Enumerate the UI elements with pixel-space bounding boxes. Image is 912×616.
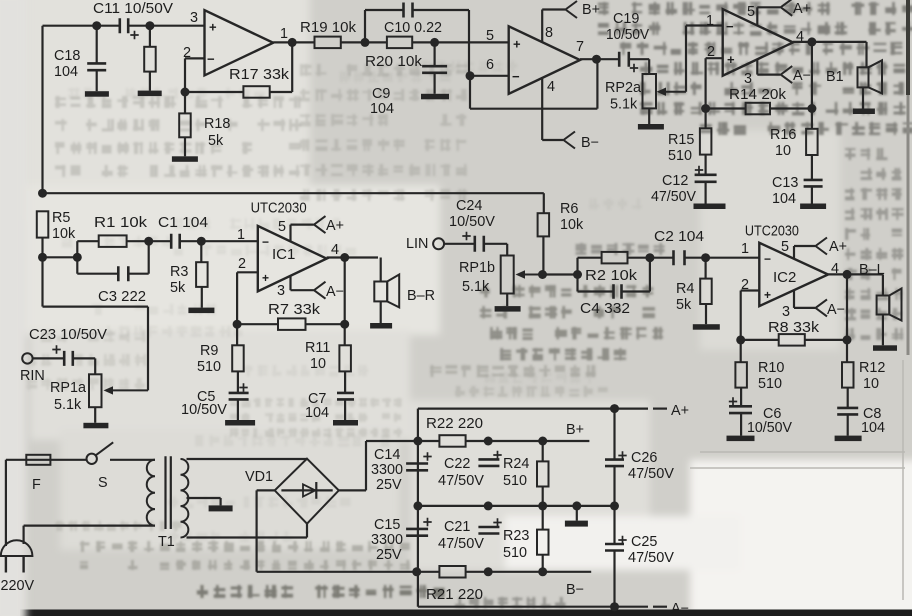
svg-text:1: 1 — [706, 13, 714, 29]
svg-text:104: 104 — [772, 191, 796, 207]
svg-text:C22: C22 — [444, 456, 470, 472]
ground under R3 — [188, 308, 214, 314]
svg-text:C12: C12 — [662, 173, 688, 189]
svg-text:1: 1 — [280, 26, 288, 42]
op-amp U3 triangle — [205, 10, 274, 75]
svg-text:4: 4 — [547, 79, 555, 95]
capacitor C6 10/50V electrolytic — [729, 406, 752, 413]
svg-text:10/50V: 10/50V — [747, 420, 792, 436]
light page margin on left — [0, 0, 26, 616]
wire: speaker B1 to ground — [862, 87, 864, 108]
wire and connector: IC2 pin 3 to A- — [793, 290, 795, 308]
ground under speaker B-R — [370, 323, 392, 329]
wire: speaker B-L to ground — [882, 315, 884, 346]
svg-text:R12: R12 — [859, 360, 885, 376]
svg-text:47/50V: 47/50V — [438, 473, 484, 489]
svg-text:R16: R16 — [770, 127, 796, 143]
svg-text:104: 104 — [305, 405, 329, 421]
node junction pin2/R9/R7 — [233, 320, 242, 329]
resistor R6 10k — [538, 213, 550, 236]
resistor R11 10 — [344, 324, 346, 345]
op-amp U4 triangle (buffer) — [509, 26, 580, 94]
svg-text:C14: C14 — [374, 447, 400, 463]
svg-text:5.1k: 5.1k — [54, 397, 82, 413]
terminal dash and label A+ — [653, 408, 667, 410]
svg-text:C9: C9 — [372, 86, 390, 102]
wire: U4 output to C19 — [580, 58, 619, 60]
wire: R19 to junction — [341, 41, 387, 43]
resistor (unlabeled) shunt to ground — [149, 26, 151, 47]
node junction C1/R3 — [197, 237, 206, 246]
node junction C26 on A+ rail — [610, 404, 619, 413]
node junction R2/C2 — [645, 253, 654, 262]
mains plug 220V — [1, 540, 33, 556]
speaker B-R — [374, 282, 387, 302]
node junction C25 on A- rail — [610, 602, 619, 611]
wire down to speaker B-L — [882, 274, 884, 295]
node junction R7/R11 — [340, 320, 349, 329]
node junction pin2/R17/R18 — [181, 88, 190, 97]
wire: IC1 pin 5 stub and connector to A+ — [289, 225, 291, 242]
node junction bus/left vertical — [38, 189, 47, 198]
svg-text:−: − — [764, 252, 771, 266]
resistor R9 510 — [236, 324, 238, 345]
wire: bus corner down to R6 — [543, 193, 545, 213]
node junctions on B+ rail — [413, 437, 422, 446]
svg-text:UTC2030: UTC2030 — [745, 223, 799, 240]
potentiometer RP1b 5.1k — [501, 256, 514, 294]
power amp U2 triangle — [723, 9, 793, 76]
svg-text:R2 10k: R2 10k — [585, 268, 638, 284]
svg-text:7: 7 — [576, 39, 584, 55]
svg-text:IC1: IC1 — [272, 246, 295, 263]
node junction IC2 output — [843, 270, 852, 279]
wire and connector: pin 8 to B+ — [541, 10, 543, 44]
wire: U2 pin 2 input — [706, 57, 723, 59]
svg-text:A+: A+ — [793, 1, 811, 17]
svg-text:A−: A− — [326, 284, 344, 300]
capacitor C18 104 (shunt to ground) — [96, 26, 98, 64]
svg-text:LIN: LIN — [406, 236, 428, 252]
svg-text:+: + — [209, 20, 217, 35]
ground under C5 — [225, 420, 255, 426]
svg-text:3300: 3300 — [371, 532, 403, 548]
ground at center tap — [209, 505, 233, 511]
node junction R8/R12 — [843, 335, 852, 344]
rail A- bottom — [418, 606, 648, 608]
svg-text:6: 6 — [486, 57, 494, 73]
terminal dash and label A- — [653, 606, 667, 608]
capacitor C11 10/50V (series electrolytic) — [120, 18, 128, 33]
svg-text:R22 220: R22 220 — [426, 416, 483, 432]
resistor R18 5k to ground — [184, 92, 186, 113]
feedback wire IC2 output down to R8 — [846, 274, 848, 340]
svg-text:+: + — [262, 271, 269, 285]
svg-text:R7 33k: R7 33k — [268, 302, 321, 318]
svg-text:10/50V: 10/50V — [606, 27, 649, 43]
node junction at C9 — [430, 38, 439, 47]
ground under C6 — [727, 436, 755, 442]
wire C24 to RP1b — [484, 243, 507, 245]
svg-text:C19: C19 — [613, 11, 639, 27]
wire: C11 to op-amp pin 3 — [129, 25, 205, 27]
right page border line — [906, 0, 910, 95]
rail B- with resistor R21 220 — [417, 571, 440, 573]
rail A+ top — [418, 408, 648, 410]
resistor R12 10 — [846, 340, 848, 362]
svg-text:R19 10k: R19 10k — [300, 20, 357, 36]
svg-text:+: + — [513, 37, 521, 52]
svg-text:RP1a: RP1a — [50, 380, 86, 396]
svg-text:C2 104: C2 104 — [654, 229, 704, 245]
ground stub on 0V rail — [576, 506, 578, 521]
svg-text:5.1k: 5.1k — [610, 97, 638, 113]
svg-text:R20 10k: R20 10k — [365, 54, 423, 70]
capacitor C26 47/50V electrolytic — [613, 409, 615, 460]
svg-text:−: − — [512, 69, 520, 84]
wire: secondary top to bridge AC — [187, 458, 308, 460]
wire: RP1a bottom to ground — [94, 407, 96, 423]
bottom scan band — [20, 610, 912, 616]
svg-text:VD1: VD1 — [245, 469, 273, 485]
resistor R1 10k — [76, 241, 78, 257]
svg-text:R21 220: R21 220 — [426, 587, 483, 603]
svg-text:B+: B+ — [566, 422, 584, 438]
capacitor C2 104 series — [650, 257, 674, 259]
svg-text:R11: R11 — [305, 340, 330, 356]
resistor R2 10k — [576, 258, 578, 275]
svg-text:RP1b: RP1b — [459, 260, 495, 276]
feedback wire IC1 output to R7 — [344, 258, 346, 325]
potentiometer RP1a 5.1k — [89, 374, 102, 407]
wire: long mixing bus from left section to R6 — [43, 192, 544, 194]
svg-text:R8 33k: R8 33k — [768, 320, 820, 336]
wire down to speaker B-R — [380, 258, 382, 282]
svg-text:C15: C15 — [374, 517, 400, 533]
svg-text:A+: A+ — [829, 239, 847, 255]
wire: left vertical bus from C11 node down to mixing bus — [41, 26, 43, 194]
feedback wire from output down to R17 — [291, 42, 293, 92]
node junction left of R1/C3 — [73, 253, 82, 262]
wire: RP1b bottom to ground — [506, 294, 508, 307]
wire to R1-C3 parallel pair — [43, 256, 78, 258]
svg-text:A+: A+ — [326, 218, 344, 234]
node junction RP1b wiper / R6 — [538, 270, 547, 279]
wire: U3 output — [273, 41, 314, 43]
wire: speaker B-R to ground — [380, 301, 382, 323]
svg-text:47/50V: 47/50V — [628, 550, 674, 566]
resistor R19 10k — [315, 37, 341, 49]
svg-text:10: 10 — [863, 376, 879, 392]
ground under speaker B1 — [853, 109, 875, 115]
svg-text:−: − — [207, 52, 215, 67]
svg-text:25V: 25V — [376, 477, 402, 493]
capacitor C25 47/50V electrolytic — [613, 506, 615, 544]
svg-text:+: + — [727, 52, 735, 67]
svg-text:R23: R23 — [503, 528, 529, 544]
feedback wire U4 output to pin 6 — [469, 76, 471, 109]
svg-text:A−: A− — [827, 302, 845, 318]
wire: C19 to RP2a top — [629, 58, 650, 60]
rail 0V middle — [418, 505, 615, 507]
wire: IC2 pin 2 input — [741, 289, 760, 291]
svg-text:R1 10k: R1 10k — [94, 215, 148, 231]
input terminal RIN — [22, 353, 32, 363]
node junction U4 output — [592, 55, 601, 64]
capacitor C14 3300/25V electrolytic — [406, 464, 428, 471]
capacitor C10 0.22 (bypass, series) — [404, 3, 413, 18]
capacitor C24 10/50V series electrolytic — [475, 236, 484, 252]
ground under C8 — [835, 436, 862, 442]
svg-text:RP2a: RP2a — [605, 80, 641, 96]
svg-text:510: 510 — [668, 148, 692, 164]
svg-text:510: 510 — [197, 359, 221, 375]
svg-text:5: 5 — [747, 4, 755, 20]
IC2 UTC2030 triangle — [759, 243, 828, 306]
capacitor C5 10/50V electrolytic — [229, 393, 249, 400]
svg-text:C18: C18 — [54, 48, 80, 64]
svg-text:10: 10 — [310, 356, 326, 372]
svg-text:B–L: B–L — [859, 262, 885, 278]
wire: switch to transformer primary — [110, 459, 155, 461]
wire: fuse to switch — [50, 459, 86, 461]
svg-text:UTC2030: UTC2030 — [251, 200, 307, 217]
svg-text:510: 510 — [503, 545, 527, 561]
wire: R20 to op-amp U4 pin 5 — [412, 41, 509, 43]
wire: C1 to IC1 pin 1 — [180, 240, 258, 242]
capacitor C23 10/50V series electrolytic — [64, 351, 73, 366]
node junction pin2/R10/R8 — [736, 335, 745, 344]
resistor R8 33k (feedback) — [741, 339, 779, 341]
svg-text:25V: 25V — [376, 547, 402, 563]
speaker B-L — [877, 296, 890, 315]
wire and connector: pin 5 to A+ — [756, 7, 758, 26]
svg-text:8: 8 — [545, 25, 553, 41]
svg-text:B−: B− — [566, 582, 584, 598]
svg-text:5k: 5k — [170, 280, 186, 296]
svg-text:C24: C24 — [456, 198, 482, 214]
node junctions on B- rail — [412, 567, 421, 576]
svg-text:10k: 10k — [52, 226, 76, 242]
rail B+ with resistor R22 220 — [418, 440, 440, 442]
svg-text:C21: C21 — [444, 519, 470, 535]
svg-text:−: − — [262, 235, 269, 249]
capacitor C9 104 shunt — [434, 42, 436, 66]
node junction R1/C1 — [144, 237, 153, 246]
ground under C9 — [421, 94, 449, 100]
node junction pin2/R15/R14 — [701, 104, 710, 113]
ground under C7 — [333, 420, 358, 426]
RP1a wiper arrow — [107, 389, 148, 391]
resistor R15 510 — [704, 109, 706, 129]
svg-text:C25: C25 — [631, 534, 657, 550]
diode symbol inside VD1 — [281, 489, 332, 491]
capacitor C8 104 — [837, 408, 858, 415]
svg-text:47/50V: 47/50V — [438, 536, 484, 552]
fuse F — [26, 459, 50, 461]
svg-text:R15: R15 — [668, 132, 694, 148]
transformer T1 secondary winding — [181, 459, 189, 538]
svg-text:10/50V: 10/50V — [181, 402, 227, 418]
svg-text:R10: R10 — [758, 360, 784, 376]
IC1 UTC2030 triangle — [258, 226, 327, 291]
wire: top input wire to C11 — [43, 25, 120, 27]
capacitor C21 47/50V electrolytic — [478, 527, 499, 534]
node junction at C18 — [92, 21, 101, 30]
svg-text:3300: 3300 — [371, 462, 403, 478]
wire LIN to C24 — [444, 243, 474, 245]
node junctions on 0V rail — [413, 501, 422, 510]
svg-text:A−: A− — [671, 601, 689, 616]
capacitor C3 222 (parallel with R1) — [76, 257, 78, 273]
resistor R3 5k to ground — [200, 241, 202, 262]
ground under RP1b — [495, 306, 521, 312]
resistor R17 33k (feedback) — [243, 86, 269, 98]
svg-text:5: 5 — [486, 28, 494, 44]
svg-text:B1: B1 — [826, 69, 844, 85]
resistor R16 10 — [811, 109, 813, 129]
svg-text:C4 332: C4 332 — [580, 301, 630, 317]
resistor R5 10k from bus — [37, 211, 49, 237]
svg-text:10k: 10k — [560, 217, 584, 233]
wire: U2 output to speaker B1 — [793, 41, 867, 43]
node junction U2 output — [807, 37, 816, 46]
svg-text:S: S — [98, 475, 108, 491]
svg-text:220V: 220V — [1, 578, 35, 594]
wire and connector: pin 3 to A- — [756, 59, 758, 75]
node junction R14/R16 — [807, 104, 816, 113]
svg-text:47/50V: 47/50V — [628, 466, 674, 482]
wire C23 to RP1a — [73, 357, 96, 359]
svg-text:5k: 5k — [676, 297, 692, 313]
ground under RP1a — [83, 423, 108, 429]
wire: plug to fuse — [5, 460, 7, 546]
ground under RP2a — [638, 124, 664, 130]
svg-text:−: − — [726, 19, 734, 34]
capacitor C7 104 — [337, 393, 354, 400]
wire down to speaker B1 — [865, 42, 867, 67]
svg-text:104: 104 — [370, 101, 394, 117]
svg-text:1: 1 — [237, 227, 245, 243]
svg-text:IC2: IC2 — [773, 269, 796, 286]
wire: bridge - output down to B- rail — [257, 489, 275, 491]
capacitor C19 10/50V series electrolytic — [619, 52, 629, 67]
svg-text:R5: R5 — [52, 210, 70, 226]
ground under R4 — [693, 324, 720, 330]
resistor R23 510 — [542, 506, 544, 530]
ground under C13 — [800, 204, 826, 210]
svg-text:47/50V: 47/50V — [651, 189, 696, 205]
faint page grid lines bottom right — [690, 360, 905, 600]
svg-text:R17 33k: R17 33k — [229, 67, 290, 83]
svg-text:5: 5 — [781, 239, 789, 255]
svg-text:3: 3 — [190, 10, 198, 26]
svg-text:A+: A+ — [671, 403, 689, 419]
ground under C12 — [694, 204, 726, 210]
ground under unlabeled resistor — [138, 91, 162, 97]
wire: IC1 output pin 4 — [327, 256, 378, 258]
svg-text:510: 510 — [758, 376, 782, 392]
wire: left vertical rail link — [417, 409, 419, 607]
svg-text:5k: 5k — [208, 133, 224, 149]
node junction U3 output / feedback — [288, 38, 297, 47]
resistor R14 20k (feedback) — [706, 107, 746, 109]
svg-text:R3: R3 — [170, 264, 188, 280]
svg-text:C1 104: C1 104 — [158, 215, 208, 231]
wire: IC1 pin 2 input — [237, 271, 258, 273]
resistor R10 510 — [740, 340, 742, 362]
svg-text:3: 3 — [277, 283, 285, 299]
capacitor C13 104 — [804, 180, 823, 187]
svg-text:B+: B+ — [582, 2, 600, 18]
svg-text:5.1k: 5.1k — [462, 279, 490, 295]
node junction C2/R4 — [701, 253, 710, 262]
svg-text:4: 4 — [331, 242, 339, 258]
wire: bridge + output up to B+ rail — [339, 489, 366, 491]
capacitor C1 104 series — [149, 240, 171, 242]
wire: plug to transformer primary bottom — [23, 526, 25, 544]
capacitor C12 47/50V electrolytic — [695, 175, 717, 182]
svg-text:C13: C13 — [772, 175, 798, 191]
node junction left of R2/C4 — [573, 270, 582, 279]
switch S — [87, 454, 97, 464]
wire: RP2a bottom to ground — [648, 108, 650, 124]
resistor R7 33k (feedback) — [237, 323, 278, 325]
capacitor C22 47/50V electrolytic — [478, 459, 499, 466]
ground under speaker B-L — [873, 345, 897, 351]
ground under C18 — [85, 91, 109, 97]
svg-text:3: 3 — [782, 304, 790, 320]
wire and connector: pin 4 to B- — [541, 77, 543, 140]
svg-text:A−: A− — [793, 68, 811, 84]
node junction R19/R20/C10 — [361, 38, 370, 47]
svg-text:R18: R18 — [204, 116, 230, 132]
feedback wire: U2 output down to R14/R16 node — [811, 42, 813, 109]
svg-text:5: 5 — [278, 219, 286, 235]
node junction IC1 output — [340, 253, 349, 262]
svg-text:R14 20k: R14 20k — [729, 87, 787, 103]
svg-text:B−: B− — [581, 135, 599, 151]
wire: wiper node to R2/C4 — [543, 273, 578, 275]
resistor R24 510 — [542, 441, 544, 461]
svg-text:510: 510 — [503, 473, 527, 489]
potentiometer RP2a 5.1k — [643, 74, 657, 108]
wire: C2 to IC2 pin 1 — [685, 257, 760, 259]
node junction at unlabeled resistor — [145, 21, 154, 30]
resistor R20 10k (series) — [387, 37, 412, 49]
svg-text:C11 10/50V: C11 10/50V — [93, 1, 173, 17]
svg-text:F: F — [32, 477, 41, 493]
svg-text:1: 1 — [741, 241, 749, 257]
wire: pin 6 node — [470, 75, 509, 77]
svg-text:B–R: B–R — [407, 288, 435, 304]
svg-text:C26: C26 — [631, 450, 657, 466]
wire: RP1a wiper up to R5 node (right channel feed) — [147, 307, 149, 391]
wire: U3 pin 2 input stub — [185, 57, 205, 59]
wire RIN to C23 — [33, 357, 65, 359]
svg-text:R9: R9 — [200, 343, 218, 359]
capacitor C4 332 (parallel with R2) — [576, 275, 578, 292]
svg-text:R4: R4 — [676, 281, 694, 297]
svg-text:2: 2 — [238, 256, 246, 272]
bridge rectifier VD1 diamond — [275, 459, 339, 524]
svg-text:C10 0.22: C10 0.22 — [384, 20, 442, 36]
transformer T1 core — [164, 456, 166, 529]
svg-text:R24: R24 — [503, 456, 529, 472]
wire: secondary bottom to bridge AC — [187, 536, 308, 538]
svg-text:T1: T1 — [158, 534, 175, 550]
node junction R5/R1/C3 — [38, 253, 47, 262]
